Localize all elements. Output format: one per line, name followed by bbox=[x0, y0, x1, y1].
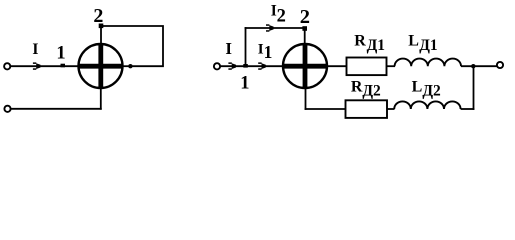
svg-text:2: 2 bbox=[277, 7, 286, 27]
wire top horizontal to node2 bbox=[245, 27, 305, 29]
arrow current I2 bbox=[266, 24, 274, 31]
svg-text:L: L bbox=[408, 33, 419, 50]
arrow current I1 bbox=[258, 62, 266, 69]
svg-text:2: 2 bbox=[300, 6, 310, 28]
cross vertical bar M2 bbox=[303, 44, 308, 89]
wire R2 to L2 bbox=[387, 108, 395, 110]
wire right vertical up to junction bbox=[473, 66, 475, 110]
arrow current I bbox=[33, 62, 41, 69]
resistor RД2 bbox=[346, 100, 388, 118]
svg-text:R: R bbox=[354, 32, 366, 49]
svg-text:Д2: Д2 bbox=[362, 82, 381, 99]
wire L1 to terminal bbox=[461, 65, 497, 67]
svg-text:R: R bbox=[351, 79, 363, 96]
node 1 (right circuit) bbox=[243, 64, 248, 68]
resistor RД1 bbox=[347, 58, 387, 76]
terminal T1 (top-left input) bbox=[4, 63, 10, 69]
wire T3 to machine left bbox=[220, 65, 284, 67]
wire node1 up bbox=[245, 27, 247, 66]
cross horizontal bar M2 bbox=[283, 64, 329, 69]
svg-text:2: 2 bbox=[93, 5, 103, 27]
svg-text:Д2: Д2 bbox=[422, 83, 441, 100]
wire machine right to loop dot bbox=[122, 65, 131, 67]
wire bottom to R2 bbox=[305, 108, 346, 110]
svg-text:1: 1 bbox=[240, 74, 249, 94]
wire node2 down to machine top bbox=[304, 28, 306, 45]
cross vertical bar bbox=[98, 44, 103, 89]
svg-text:Д1: Д1 bbox=[367, 37, 385, 54]
svg-text:I: I bbox=[225, 39, 232, 58]
terminal T3 (left input) bbox=[214, 63, 220, 69]
svg-text:1: 1 bbox=[264, 42, 273, 62]
wire L2 to right vertical bbox=[461, 108, 475, 110]
wire T1 to machine left bbox=[10, 65, 79, 67]
inductor LД2 bbox=[394, 101, 460, 109]
terminal T2 (bottom-left) bbox=[4, 106, 10, 112]
cross horizontal bar bbox=[79, 64, 123, 69]
junction dot right of M1 bbox=[128, 64, 132, 68]
wire machine right to R1 bbox=[328, 65, 348, 67]
inductor LД1 bbox=[395, 59, 461, 67]
terminal T4 (right output) bbox=[497, 62, 503, 68]
wire loop node2-right-down-dot bbox=[101, 26, 163, 66]
wire machine bottom down bbox=[100, 88, 102, 110]
wire node2 down to machine top bbox=[100, 26, 102, 45]
svg-text:1: 1 bbox=[56, 44, 65, 64]
wire bottom horizontal bbox=[11, 108, 102, 110]
svg-text:I: I bbox=[32, 41, 38, 58]
node 2 (left circuit) bbox=[99, 24, 104, 29]
wire R1 to L1 bbox=[387, 65, 396, 67]
machine (cross-circle) M2 bbox=[283, 44, 327, 88]
node 2 (right circuit) bbox=[302, 26, 307, 31]
junction dot right bbox=[471, 64, 475, 68]
svg-text:Д1: Д1 bbox=[419, 37, 437, 54]
machine (cross-circle) M1 bbox=[79, 44, 123, 88]
svg-text:L: L bbox=[412, 79, 423, 96]
arrow current I (right circuit) bbox=[228, 62, 236, 69]
node 1 (left circuit) bbox=[61, 64, 66, 68]
wire machine bottom down (right circuit) bbox=[305, 88, 307, 110]
